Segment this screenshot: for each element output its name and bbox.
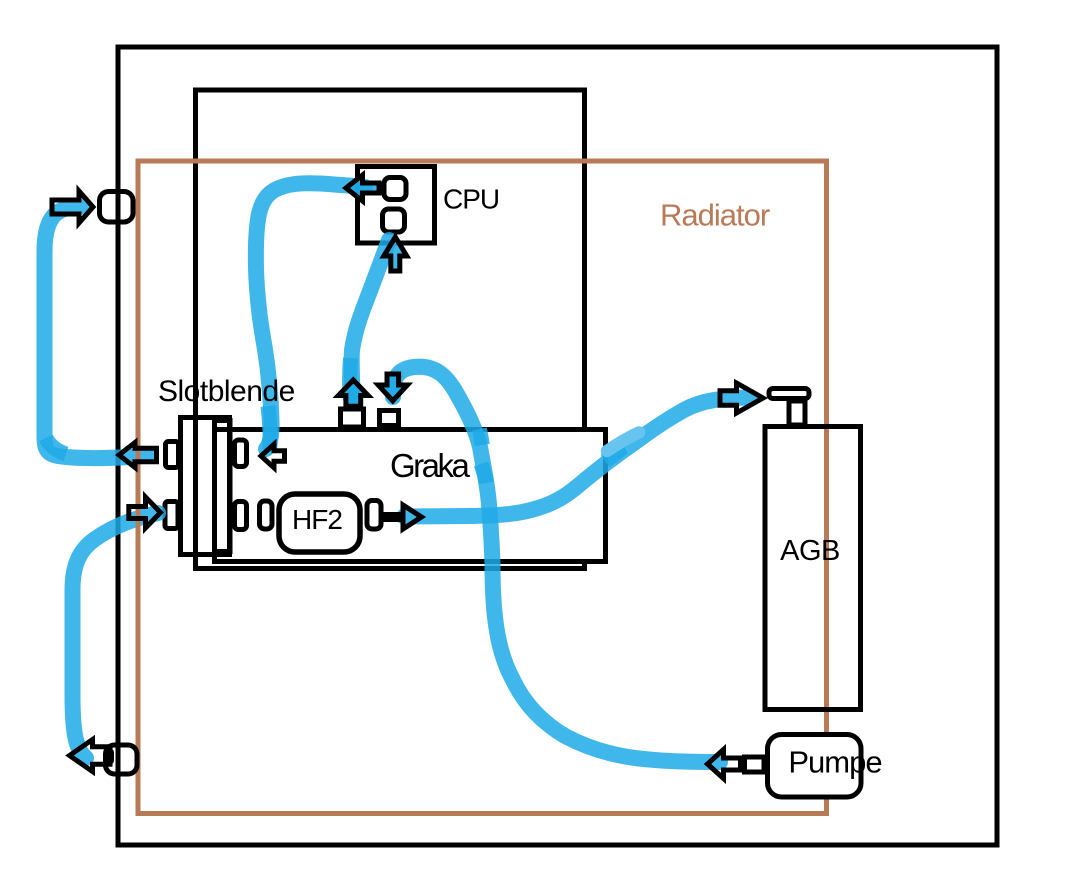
svg-text:CPU: CPU (443, 184, 499, 215)
svg-text:Pumpe: Pumpe (788, 745, 881, 780)
svg-text:Graka: Graka (390, 447, 471, 484)
svg-text:HF2: HF2 (292, 504, 342, 535)
svg-text:Slotblende: Slotblende (158, 375, 295, 408)
svg-text:AGB: AGB (780, 535, 840, 567)
svg-text:Radiator: Radiator (660, 198, 770, 233)
